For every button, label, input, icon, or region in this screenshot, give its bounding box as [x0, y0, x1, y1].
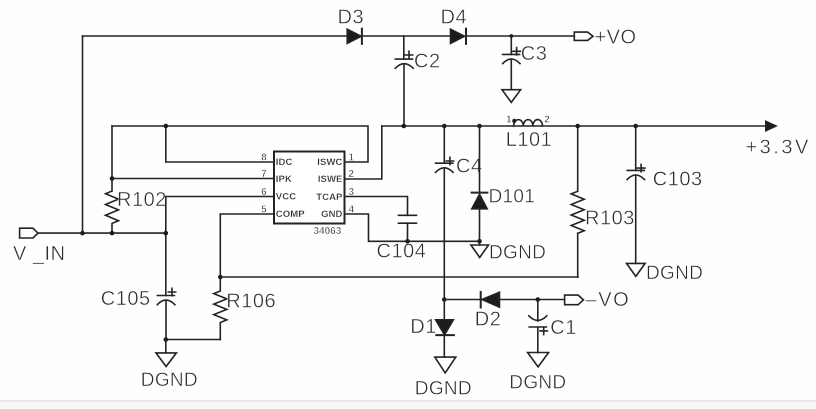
svg-text:C105: C105: [101, 288, 151, 310]
wire: V_IN rail: [38, 232, 166, 234]
junction: D101 top on switch node: [477, 124, 482, 129]
svg-text:C3: C3: [521, 43, 548, 65]
junction: pin8 branch on net A: [164, 124, 169, 129]
connector +VO: [574, 26, 636, 48]
svg-text:D1: D1: [410, 316, 437, 338]
wire: R102 riser: [111, 126, 113, 191]
IC U1 box 34063: [274, 152, 345, 237]
wire: pin 8 IDC branch: [166, 126, 274, 162]
svg-text:D2: D2: [475, 309, 502, 331]
wire: pin 5 COMP branch: [220, 214, 274, 277]
junction: C2 bottom on switch node: [402, 124, 407, 129]
ground DGND under D1: [415, 357, 472, 400]
svg-text:2: 2: [544, 114, 550, 125]
svg-text:VCC: VCC: [276, 192, 296, 203]
svg-text:C103: C103: [653, 169, 703, 191]
svg-text:DGND: DGND: [646, 263, 703, 284]
ground DGND under D101: [471, 241, 546, 263]
svg-text:IDC: IDC: [276, 157, 293, 168]
wire: top rail left segment: [83, 35, 348, 37]
arrow: +3.3V output: [746, 121, 811, 158]
junction: R103 top on output rail: [575, 124, 580, 129]
capacitor C103: [627, 126, 703, 263]
svg-text:R103: R103: [585, 207, 635, 229]
wire: pin 2 ISWE riser to switch node: [345, 126, 382, 179]
ground DGND under C1: [509, 353, 566, 394]
pin number 5: [261, 205, 267, 216]
diode D3: [338, 7, 365, 44]
svg-text:ISWE: ISWE: [318, 174, 343, 185]
connector -VO: [565, 289, 631, 311]
svg-text:GND: GND: [321, 209, 342, 220]
resistor R106: [214, 277, 276, 340]
svg-text:IPK: IPK: [276, 174, 292, 185]
junction: IPK on riser: [110, 176, 115, 181]
junction: C4 top on switch node: [442, 124, 447, 129]
pin number 3: [349, 187, 355, 198]
wire: top rail middle segment: [362, 35, 451, 37]
svg-text:D3: D3: [338, 7, 365, 29]
svg-text:L101: L101: [506, 129, 553, 151]
capacitor C1: [529, 300, 577, 353]
connector V_IN: [13, 228, 66, 265]
wire: C4 bottom long vertical to negative charge pump node: [443, 168, 445, 300]
svg-text:+VO: +VO: [595, 26, 637, 48]
wire: top rail right segment: [466, 35, 574, 37]
inductor L101: [506, 114, 553, 151]
pin number 1: [349, 153, 355, 164]
svg-text:C4: C4: [456, 156, 483, 178]
junction: C1 top on -VO wire: [536, 297, 541, 302]
capacitor C105: [101, 288, 176, 339]
svg-text:1: 1: [506, 114, 512, 125]
svg-text:DGND: DGND: [509, 373, 566, 394]
junction: C105 bottom / R106 / ground: [164, 337, 169, 342]
svg-text:ISWC: ISWC: [317, 157, 342, 168]
capacitor C4: [436, 126, 483, 178]
capacitor C3: [503, 36, 548, 90]
svg-text:–VO: –VO: [586, 289, 631, 311]
svg-text:TCAP: TCAP: [316, 192, 343, 203]
ground DGND under C103: [627, 263, 704, 284]
svg-text:+3.3V: +3.3V: [746, 136, 811, 158]
svg-text:C104: C104: [377, 240, 427, 262]
resistor R103: [571, 126, 635, 277]
wire: switch node / output rail: [382, 125, 766, 127]
junction: COMP riser / R106 / feedback: [218, 275, 223, 280]
wire: pin 6 VCC branch down to C105: [166, 197, 274, 296]
svg-text:DGND: DGND: [415, 379, 472, 400]
svg-text:COMP: COMP: [276, 209, 305, 220]
junction: D101 anode on GND wire: [477, 239, 482, 244]
diode D2: [444, 292, 564, 331]
pin number 7: [261, 169, 267, 180]
wire: feedback wire COMP to R103 bottom: [220, 276, 578, 278]
pin number 6: [261, 187, 267, 198]
svg-text:D4: D4: [441, 7, 468, 29]
diode D4: [441, 7, 468, 44]
wire: pin 3 TCAP to C104: [345, 197, 408, 216]
bottom divider line: [0, 401, 816, 409]
svg-text:DGND: DGND: [489, 242, 546, 263]
junction: left vertical on V_IN rail: [80, 231, 85, 236]
svg-text:C1: C1: [550, 317, 577, 339]
pin number 8: [261, 153, 267, 164]
pin number 2: [349, 169, 355, 180]
svg-text:R106: R106: [226, 290, 276, 312]
junction: C103 top on output rail: [633, 124, 638, 129]
junction: C104 bottom on GND wire: [405, 239, 410, 244]
wire: pin 4 GND to D101 anode: [345, 214, 480, 241]
junction: C3 top on rail: [509, 34, 513, 38]
capacitor C104: [377, 215, 427, 262]
wire: R106 bottom to C105 bottom: [166, 339, 221, 341]
svg-text:DGND: DGND: [141, 370, 198, 391]
svg-text:C2: C2: [414, 51, 441, 73]
svg-text:R102: R102: [117, 189, 167, 211]
pin number 4: [349, 205, 355, 216]
wire: net A horizontal (VIN sense node) to ISWC: [112, 126, 368, 162]
svg-text:34063: 34063: [314, 226, 342, 237]
diode D1: [410, 300, 454, 358]
svg-text:D101: D101: [489, 186, 536, 207]
wire: left vertical from top rail to V_IN rail: [82, 36, 84, 233]
junction: charge pump node (C4/D1/D2): [442, 297, 447, 302]
resistor R102: [106, 189, 167, 233]
junction: VCC riser on V_IN rail: [164, 231, 169, 236]
diode D101: [472, 126, 536, 241]
ground under C3: [502, 90, 521, 103]
wire: pin 7 IPK: [112, 178, 274, 180]
svg-text:V _IN: V _IN: [13, 243, 66, 265]
junction: R102 bottom on V_IN rail: [110, 231, 115, 236]
ground DGND under C105: [141, 340, 198, 391]
capacitor C2: [395, 36, 440, 126]
